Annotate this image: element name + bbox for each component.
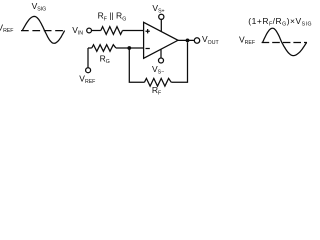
svg-text:RF || RG: RF || RG (98, 11, 127, 23)
